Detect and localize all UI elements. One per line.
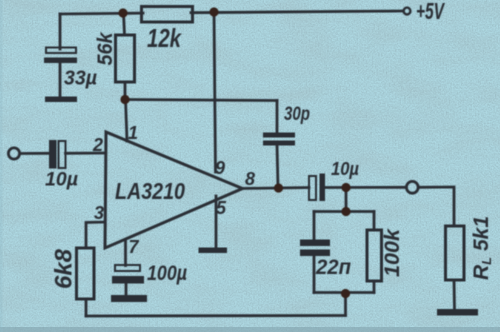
wire RL to ground: [453, 280, 456, 310]
wire bottom junction down: [344, 293, 347, 316]
wire output from pin8: [242, 188, 309, 189]
svg-text:10µ: 10µ: [45, 170, 78, 191]
svg-text:100k: 100k: [381, 228, 404, 277]
wire 100k bottom stem: [373, 281, 376, 293]
junction dot after 10u: [341, 183, 350, 192]
wire 56k bottom stem: [124, 82, 127, 99]
wire branch down from output node: [345, 188, 348, 212]
wire right drop to 100k: [373, 212, 376, 231]
svg-text:5: 5: [216, 198, 227, 218]
svg-text:100µ: 100µ: [147, 262, 187, 285]
svg-text:33µ: 33µ: [64, 68, 97, 90]
svg-text:3: 3: [94, 203, 104, 223]
wire 6k8 bottom to long bottom wire: [85, 299, 88, 316]
wire 22p bottom stem: [313, 256, 316, 293]
wire cap to pin2: [66, 152, 106, 155]
svg-text:56k: 56k: [94, 31, 117, 65]
resistor R5 100k: [367, 230, 382, 281]
op-amp U1 LA3210: [105, 132, 243, 248]
wire pin5 drop: [215, 196, 218, 248]
svg-text:9: 9: [215, 158, 225, 178]
capacitor C1 33u plates: [44, 48, 77, 64]
wire left drop to 22p: [313, 212, 316, 240]
wire pin7 drop: [124, 240, 127, 266]
ground at pin5: [199, 248, 228, 254]
wire +5V top rail: [60, 11, 402, 14]
junction dot at top bus: [341, 207, 350, 216]
wire to 30p: [276, 101, 279, 134]
resistor R4 RL 5k1: [446, 226, 465, 280]
capacitor C2 30p: [263, 133, 295, 146]
capacitor C5 10u output: [309, 174, 325, 202]
wire terminal to RL: [418, 187, 454, 226]
capacitor C3 10u input: [49, 140, 66, 169]
junction dot at 12k right: [209, 7, 218, 16]
ground at 100u: [111, 295, 147, 302]
svg-text:6k8: 6k8: [51, 248, 78, 289]
wire pin1 drop: [126, 99, 128, 141]
terminal output: [406, 181, 418, 193]
wire output cap to terminal: [326, 186, 407, 189]
junction dot at bottom bus: [341, 289, 350, 298]
resistor R1 12k: [142, 7, 193, 23]
junction dot at output node pin8: [274, 183, 283, 192]
svg-text:10µ: 10µ: [331, 159, 360, 179]
wire pin3 to 6k8: [86, 222, 105, 248]
wire 33u top stem: [59, 14, 62, 49]
wire bottom bus of parallel network: [314, 291, 374, 294]
svg-text:1: 1: [128, 123, 138, 143]
wire input to cap: [20, 152, 49, 155]
terminal +5V: [404, 8, 411, 15]
terminal input: [8, 148, 19, 159]
wire 56k top stem: [124, 13, 125, 35]
junction dot at 56k bottom: [120, 95, 129, 104]
svg-text:8: 8: [245, 169, 255, 189]
wire 30p bottom stem: [277, 145, 278, 187]
wire 33u bottom stem: [59, 62, 62, 98]
svg-text:2: 2: [92, 135, 103, 155]
svg-text:22п: 22п: [315, 256, 351, 279]
ground at 33u: [45, 97, 77, 103]
resistor R2 56k: [116, 35, 135, 82]
resistor R3 6k8: [77, 248, 95, 299]
wire feedback top horizontal: [125, 100, 277, 101]
svg-text:30p: 30p: [284, 104, 310, 125]
ground at RL: [437, 309, 478, 316]
wire long bottom feedback: [86, 314, 346, 317]
wire pin9 drop from rail: [214, 12, 216, 172]
capacitor C6 22p: [300, 240, 330, 257]
junction dot at 12k left: [118, 8, 127, 17]
svg-text:+5V: +5V: [416, 0, 445, 24]
svg-text:LA3210: LA3210: [115, 178, 185, 204]
svg-text:RL 5k1: RL 5k1: [470, 216, 494, 280]
svg-text:12k: 12k: [147, 23, 182, 53]
wire top bus of parallel network: [314, 210, 374, 213]
wire 100u stem: [125, 284, 128, 296]
svg-text:7: 7: [129, 237, 140, 257]
capacitor C4 100u: [112, 265, 144, 284]
